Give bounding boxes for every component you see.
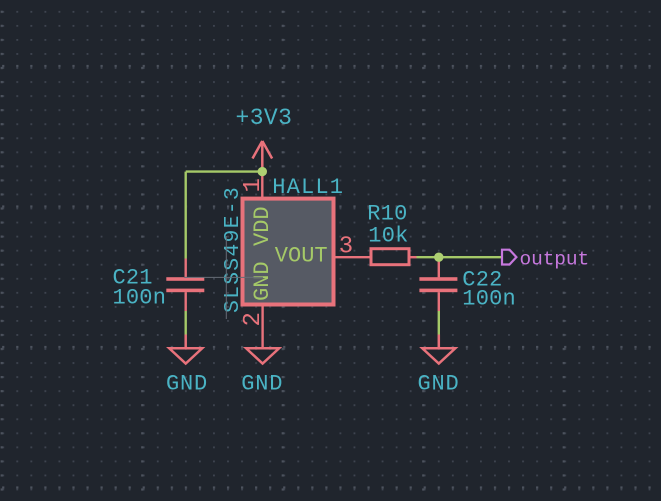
junction at +3V3 / HALL1 pin 1 bbox=[258, 167, 267, 176]
capacitor C21 bbox=[166, 259, 204, 312]
wire C21 to GND bbox=[184, 311, 186, 335]
wire down to C21 (vertical) bbox=[184, 172, 186, 259]
svg-text:HALL1: HALL1 bbox=[272, 175, 344, 200]
capacitor C22 bbox=[419, 257, 457, 311]
pin 2 (GND) of HALL1 bbox=[261, 304, 263, 348]
wire from C21 top to +3V3 junction (horizontal) bbox=[186, 170, 263, 172]
svg-text:GND: GND bbox=[166, 372, 208, 397]
pin 3 (VOUT) of HALL1 bbox=[336, 256, 370, 258]
junction at R10 / C22 bbox=[434, 253, 443, 262]
pin 1 (VDD) of HALL1 bbox=[261, 172, 263, 199]
svg-text:3: 3 bbox=[339, 234, 353, 261]
svg-text:GND: GND bbox=[250, 261, 275, 301]
svg-text:VOUT: VOUT bbox=[275, 244, 328, 269]
power symbol +3V3 bbox=[253, 141, 273, 172]
wire R10 to output label bbox=[417, 256, 502, 258]
svg-text:2: 2 bbox=[240, 312, 267, 326]
hall sensor HALL1 body bbox=[243, 199, 334, 305]
wire C22 to GND bbox=[438, 311, 440, 335]
svg-text:1: 1 bbox=[240, 178, 267, 192]
svg-text:100n: 100n bbox=[113, 286, 167, 311]
svg-text:+3V3: +3V3 bbox=[236, 105, 293, 131]
cursor crosshair bbox=[184, 236, 263, 319]
svg-text:VDD: VDD bbox=[250, 206, 275, 246]
ground symbol GND (left) bbox=[169, 335, 202, 364]
svg-text:SLSS49E-3: SLSS49E-3 bbox=[221, 186, 245, 313]
svg-text:10k: 10k bbox=[368, 224, 408, 249]
svg-text:GND: GND bbox=[417, 372, 459, 397]
hierarchical label arrow for output bbox=[502, 250, 516, 265]
svg-text:GND: GND bbox=[241, 372, 283, 397]
ground symbol GND (middle) bbox=[246, 348, 279, 363]
resistor R10 bbox=[371, 249, 417, 265]
ground symbol GND (right) bbox=[422, 335, 455, 364]
svg-text:100n: 100n bbox=[462, 286, 516, 311]
svg-text:output: output bbox=[520, 249, 590, 271]
